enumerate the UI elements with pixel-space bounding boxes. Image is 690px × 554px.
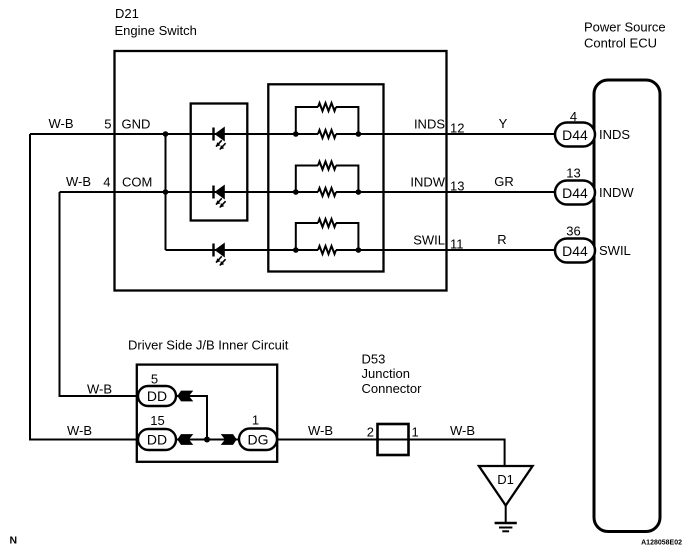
wire DG to D1 [277,440,505,467]
svg-text:13: 13 [450,179,464,194]
arrow into DD pin 15 [177,434,193,445]
svg-text:DD: DD [147,432,167,448]
arrow into DD pin 5 [177,391,193,402]
svg-text:D44: D44 [562,127,588,143]
svg-text:15: 15 [150,413,164,428]
wire DD15 to DG [176,439,239,441]
resistor enclosure box [268,84,383,271]
svg-text:4: 4 [103,175,110,190]
svg-text:W-B: W-B [450,423,475,438]
svg-text:D53: D53 [362,352,386,367]
node junction pair 3 left [293,247,299,253]
node junction pair 1 left [293,131,299,137]
node junction J/B [204,437,210,443]
svg-text:INDW: INDW [410,175,445,190]
svg-text:INDS: INDS [414,117,445,132]
svg-text:A128058E02: A128058E02 [641,540,682,547]
resistor pair 1 loop wires [296,107,359,134]
svg-text:1: 1 [412,425,419,440]
LED 1 (GND row) [214,128,226,150]
node junction pair 1 right [356,131,362,137]
junction block box Driver Side J/B [137,365,277,462]
svg-text:D21: D21 [115,6,139,21]
wire COM vertical W-B down to J/B pin 5 [60,192,139,396]
node junction GND [163,131,169,137]
wire GND row (W-B to INDS) [30,133,555,135]
LED 3 (SWIL row) [214,244,226,266]
svg-text:INDW: INDW [599,185,634,200]
node junction pair 2 left [293,189,299,195]
resistor R lower 2 [318,188,336,196]
svg-text:4: 4 [570,109,577,124]
svg-text:5: 5 [104,117,111,132]
svg-text:2: 2 [367,425,374,440]
wire SWIL row [166,249,556,251]
svg-text:Y: Y [499,116,508,131]
node junction COM [163,189,169,195]
resistor R lower 3 [318,246,336,254]
svg-text:DD: DD [147,388,167,404]
diode D1 triangle [479,466,533,506]
connector D44 INDW [555,181,595,205]
connector DD pin 15 [138,429,176,450]
svg-text:13: 13 [566,166,580,181]
resistor pair 3 loop wires [296,223,359,250]
svg-text:Engine Switch: Engine Switch [115,23,197,38]
svg-text:W-B: W-B [49,116,74,131]
svg-text:W-B: W-B [67,423,92,438]
svg-text:R: R [497,232,506,247]
ground symbol [495,506,517,532]
ECU box Power Source Control ECU [594,80,660,532]
junction connector D53 [378,424,409,455]
svg-text:Power Source: Power Source [584,20,666,35]
connector DG pin 1 [239,429,277,451]
svg-text:SWIL: SWIL [599,243,631,258]
svg-text:N: N [10,535,18,547]
svg-text:Driver Side J/B Inner Circuit: Driver Side J/B Inner Circuit [128,338,289,353]
svg-text:INDS: INDS [599,127,630,142]
resistor R lower 1 [318,130,336,138]
resistor R upper 3 [318,219,336,227]
svg-text:COM: COM [122,175,152,190]
svg-text:D44: D44 [562,243,588,259]
svg-text:GR: GR [494,174,514,189]
svg-text:W-B: W-B [66,174,91,189]
engine switch box D21 [115,51,447,291]
svg-text:Control ECU: Control ECU [584,36,657,51]
svg-text:Connector: Connector [362,381,423,396]
wire COM row (W-B to INDW) [60,191,556,193]
LED enclosure box [191,104,248,221]
svg-text:DG: DG [248,432,269,448]
svg-text:5: 5 [151,372,158,387]
svg-text:W-B: W-B [87,381,112,396]
wire arrow row pin 5 [176,396,207,440]
svg-text:GND: GND [122,117,151,132]
wire internal vertical GND-COM-SWIL [165,134,167,250]
arrow into DG [221,434,237,445]
svg-text:36: 36 [566,224,580,239]
svg-text:D1: D1 [497,472,514,487]
svg-text:1: 1 [252,413,259,428]
wire GND vertical W-B down to J/B pin 15 [30,134,138,440]
svg-text:SWIL: SWIL [413,233,445,248]
connector D44 SWIL [555,239,595,263]
svg-text:11: 11 [450,237,464,252]
node junction pair 2 right [356,189,362,195]
svg-text:Junction: Junction [362,366,410,381]
resistor R upper 1 [318,103,336,111]
node junction pair 3 right [356,247,362,253]
svg-text:D44: D44 [562,185,588,201]
svg-text:12: 12 [450,121,464,136]
connector DD pin 5 [138,386,176,406]
svg-text:W-B: W-B [308,423,333,438]
LED 2 (COM row) [214,186,226,208]
connector D44 INDS [555,123,595,147]
resistor R upper 2 [318,162,336,170]
resistor pair 2 loop wires [296,166,359,193]
